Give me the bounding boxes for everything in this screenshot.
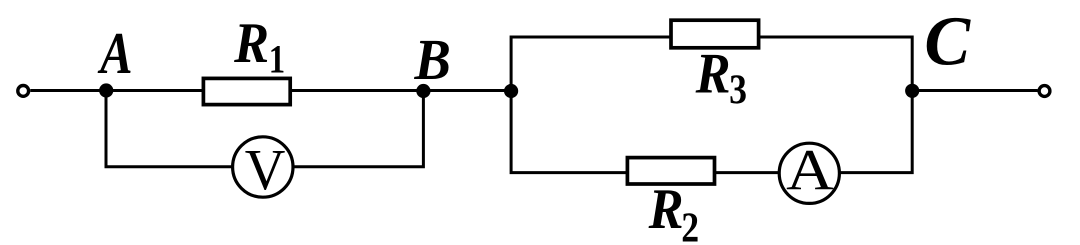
resistor R2: [627, 158, 714, 184]
ammeter A: [779, 139, 839, 203]
voltmeter V: [233, 137, 293, 202]
node junction after B: [504, 84, 518, 98]
wire: R3 branch (junction up, across top, down to node C): [511, 37, 912, 91]
node B: [416, 84, 430, 98]
resistor R3: [671, 20, 759, 48]
svg-text:A: A: [786, 139, 834, 202]
resistor R1: [203, 78, 290, 104]
node A: [99, 83, 113, 97]
node C: [905, 84, 919, 98]
svg-text:R: R: [648, 177, 684, 240]
svg-text:A: A: [97, 20, 132, 85]
label R2: [648, 177, 699, 245]
svg-text:B: B: [414, 28, 451, 92]
svg-text:1: 1: [269, 37, 285, 82]
wire: voltmeter branch (node A down, across, up to node B): [106, 91, 423, 167]
right terminal: [1039, 86, 1050, 97]
label R3: [695, 42, 747, 113]
svg-text:2: 2: [681, 205, 699, 245]
left terminal: [18, 86, 29, 97]
wire: left terminal through node A, resistor R1, node B to junction: [30, 89, 511, 92]
svg-text:R: R: [233, 11, 269, 74]
svg-text:R: R: [695, 42, 731, 105]
wire: R2 branch (junction down, across bottom, up to node C): [511, 91, 912, 173]
wire: node C to right terminal: [912, 89, 1037, 92]
svg-text:V: V: [245, 138, 286, 202]
label R1: [233, 11, 285, 81]
svg-text:3: 3: [729, 67, 747, 113]
svg-text:C: C: [924, 2, 971, 80]
